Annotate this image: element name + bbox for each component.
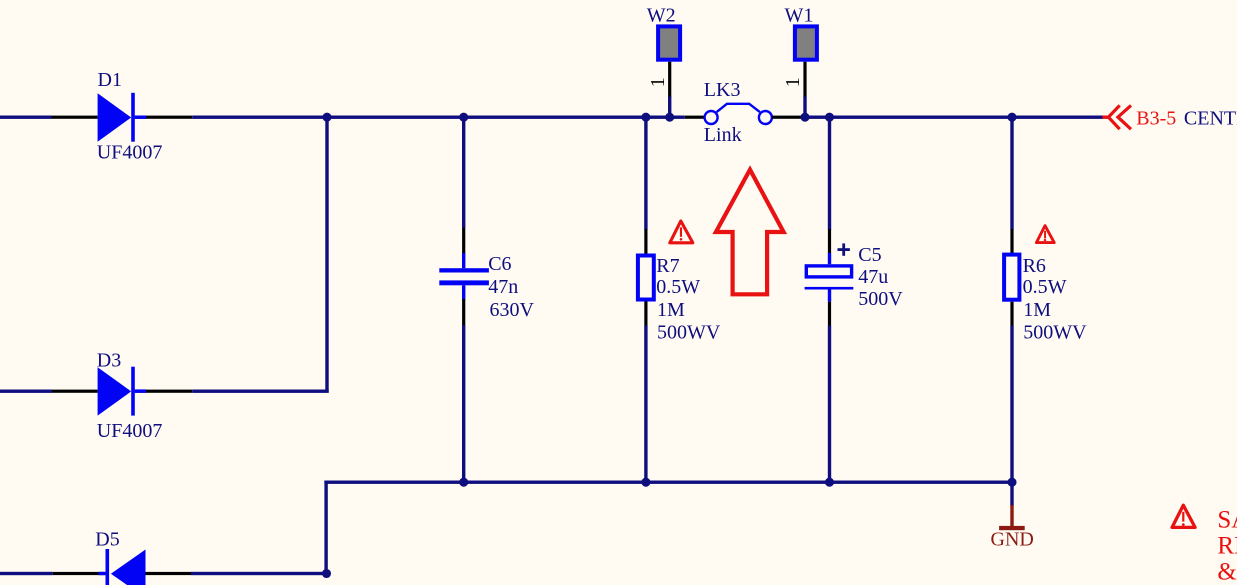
svg-text:500V: 500V xyxy=(858,288,903,310)
wire: top net from LK3 right pin to port xyxy=(802,116,1102,119)
diode D1 xyxy=(52,93,193,142)
svg-text:1: 1 xyxy=(647,77,669,87)
capacitor C6 xyxy=(439,228,489,326)
wire: left edge to D1 anode xyxy=(0,116,52,119)
resistor R7 xyxy=(638,229,654,326)
svg-text:D1: D1 xyxy=(98,69,122,91)
svg-text:630V: 630V xyxy=(490,299,535,321)
resistor R6 xyxy=(1004,229,1019,326)
junction W1 pin on top net xyxy=(800,113,809,122)
svg-text:W1: W1 xyxy=(785,5,814,27)
junction C6 bottom on bus xyxy=(459,478,468,487)
warning triangle (R6) xyxy=(1036,226,1054,243)
svg-text:REPLACE: REPLACE xyxy=(1217,533,1237,560)
svg-text:UF4007: UF4007 xyxy=(97,142,163,164)
svg-text:47n: 47n xyxy=(488,276,518,298)
svg-text:& NOTE: & NOTE xyxy=(1217,559,1237,585)
wire: left edge to D3 anode xyxy=(0,390,52,393)
svg-text:C6: C6 xyxy=(488,253,511,275)
svg-text:UF4007: UF4007 xyxy=(97,420,163,442)
junction C5 bottom on bus xyxy=(825,478,834,487)
svg-text:0.5W: 0.5W xyxy=(656,276,700,298)
wire: R7 branch upper xyxy=(644,116,647,230)
plus sign (C5) xyxy=(838,243,850,255)
junction C5 top xyxy=(825,113,834,122)
junction R6 top xyxy=(1007,113,1016,122)
svg-text:LK3: LK3 xyxy=(704,79,741,101)
junction C6 top xyxy=(459,113,468,122)
svg-text:500WV: 500WV xyxy=(657,321,721,343)
junction R7 top xyxy=(641,113,650,122)
svg-text:B3-5: B3-5 xyxy=(1136,107,1176,129)
junction W2 pin on top net xyxy=(665,113,674,122)
red arrow annotation xyxy=(716,170,784,295)
svg-text:D5: D5 xyxy=(95,529,119,551)
svg-text:SAFETY: SAFETY xyxy=(1217,507,1237,534)
svg-text:Link: Link xyxy=(704,124,742,146)
svg-text:1M: 1M xyxy=(1023,299,1051,321)
svg-text:CENTER: CENTER xyxy=(1184,107,1237,129)
wire: R6 branch upper xyxy=(1010,116,1013,230)
wire: D1 cathode to right, main top net xyxy=(192,116,685,119)
testpoint W1 xyxy=(795,26,817,117)
wire: R7 branch lower xyxy=(644,326,647,483)
svg-text:C5: C5 xyxy=(858,244,881,266)
wire: C6 branch upper xyxy=(462,116,465,228)
svg-text:R7: R7 xyxy=(656,255,679,277)
svg-text:500WV: 500WV xyxy=(1023,321,1087,343)
svg-text:D3: D3 xyxy=(97,350,121,372)
svg-text:47u: 47u xyxy=(858,266,888,288)
wire: D5 anode to bus riser xyxy=(191,572,328,575)
svg-text:1: 1 xyxy=(782,77,804,87)
wire: C5 branch upper xyxy=(828,116,831,230)
svg-text:GND: GND xyxy=(991,529,1034,551)
port B3-5 CENTER xyxy=(1103,105,1132,129)
link LK3 xyxy=(685,104,803,124)
diode D5 xyxy=(53,549,191,585)
wire: D3 cathode to vertical riser xyxy=(192,390,329,393)
svg-text:0.5W: 0.5W xyxy=(1023,276,1067,298)
wire: bus riser x=326 from bus down to D5 xyxy=(324,481,327,574)
wire: left edge to D5 cathode xyxy=(0,572,53,575)
warning triangle (R7) xyxy=(670,221,693,243)
junction node A (D1/D3) xyxy=(322,113,331,122)
wire: C5 branch lower xyxy=(828,326,831,483)
ground GND xyxy=(999,505,1025,530)
wire: C6 branch lower xyxy=(462,325,465,482)
wire: bottom bus xyxy=(324,481,1013,484)
junction R6 bottom / GND takeoff xyxy=(1007,478,1016,487)
wire: R6 branch lower xyxy=(1010,326,1013,483)
svg-text:R6: R6 xyxy=(1023,255,1046,277)
testpoint W2 xyxy=(658,26,680,117)
wire: vertical from node A down to D3 xyxy=(325,116,328,393)
warning triangle (note) xyxy=(1172,505,1195,527)
svg-text:1M: 1M xyxy=(657,299,685,321)
junction D5 / bus riser xyxy=(322,569,331,578)
capacitor C5 (polarized) xyxy=(805,229,854,326)
wire: stub to GND xyxy=(1010,482,1013,506)
diode D3 xyxy=(52,367,192,416)
junction R7 bottom on bus xyxy=(641,478,650,487)
svg-text:W2: W2 xyxy=(647,5,676,27)
